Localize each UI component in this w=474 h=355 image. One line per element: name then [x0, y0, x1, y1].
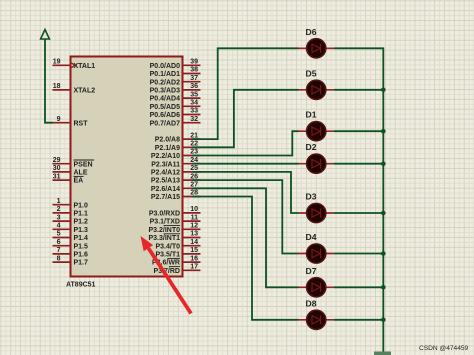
svg-text:P3.2/INT0: P3.2/INT0: [148, 227, 180, 234]
wire P2.3 to D2: [193, 163, 299, 165]
pin 23 P2.2/A10: [151, 149, 201, 160]
pin 29 PSEN: [53, 157, 95, 168]
svg-text:18: 18: [53, 83, 61, 90]
svg-text:XTAL2: XTAL2: [74, 88, 96, 95]
pin 14 P3.4/T0: [155, 239, 200, 250]
wire P2 pin to D4: [193, 180, 299, 253]
pin 30 ALE: [53, 165, 88, 176]
pin 16 P3.6/WR: [152, 255, 201, 266]
svg-text:7: 7: [57, 247, 61, 254]
junction node at bus D1: [381, 129, 386, 134]
svg-text:P2.0/A8: P2.0/A8: [155, 137, 180, 144]
watermark CSDN: [419, 345, 469, 352]
svg-text:3: 3: [57, 214, 61, 221]
pin 22 P2.1/A9: [155, 141, 201, 152]
junction node at bus D7: [381, 285, 386, 290]
svg-text:XTAL1: XTAL1: [74, 63, 96, 70]
pin 21 P2.0/A8: [155, 132, 201, 143]
svg-text:D2: D2: [306, 142, 317, 152]
svg-text:D1: D1: [306, 110, 317, 120]
svg-text:8: 8: [57, 255, 61, 262]
svg-text:5: 5: [57, 231, 61, 238]
svg-text:31: 31: [53, 173, 61, 180]
svg-text:17: 17: [190, 264, 198, 271]
svg-text:30: 30: [53, 165, 61, 172]
pin 7 P1.6: [53, 247, 89, 258]
junction node at bus D4: [381, 251, 386, 256]
svg-text:34: 34: [190, 100, 198, 107]
svg-text:P0.7/AD7: P0.7/AD7: [150, 120, 180, 127]
svg-text:P2.1/A9: P2.1/A9: [155, 145, 180, 152]
pin 37 P0.2/AD2: [150, 75, 201, 86]
annotation arrow (red pointer): [141, 236, 192, 314]
wire D3 cathode to bus: [334, 212, 383, 214]
LED D4: [299, 232, 334, 263]
svg-text:P2.3/A11: P2.3/A11: [151, 161, 180, 168]
svg-text:D7: D7: [306, 266, 317, 276]
svg-text:P1.6: P1.6: [74, 252, 89, 259]
svg-text:14: 14: [190, 239, 198, 246]
pin 27 P2.6/A14: [151, 182, 201, 193]
pin 13 P3.3/INT1: [148, 231, 200, 242]
pin 31 EA: [53, 173, 84, 184]
pin 2 P1.1: [53, 206, 89, 217]
svg-text:D4: D4: [306, 232, 317, 242]
pin 35 P0.4/AD4: [150, 91, 201, 102]
junction node at bus D5: [381, 88, 386, 93]
LED D1: [299, 110, 334, 141]
svg-text:PSEN: PSEN: [74, 161, 93, 168]
svg-text:P1.3: P1.3: [74, 227, 89, 234]
svg-text:P0.3/AD3: P0.3/AD3: [150, 88, 180, 95]
svg-text:D6: D6: [306, 27, 317, 37]
svg-text:39: 39: [190, 59, 198, 66]
svg-text:2: 2: [57, 206, 61, 213]
svg-text:P2.4/A12: P2.4/A12: [151, 170, 180, 177]
pin 15 P3.5/T1: [155, 247, 200, 258]
svg-text:CSDN @474459: CSDN @474459: [419, 345, 469, 352]
svg-text:29: 29: [53, 157, 61, 164]
svg-text:P3.3/INT1: P3.3/INT1: [148, 235, 180, 242]
wire P2 pin to D1: [193, 131, 299, 155]
LED D3: [299, 192, 334, 223]
svg-text:RST: RST: [74, 120, 89, 127]
svg-text:D5: D5: [306, 68, 317, 78]
wire D2 cathode to bus: [334, 163, 383, 165]
svg-text:P3.0/RXD: P3.0/RXD: [149, 211, 180, 218]
svg-text:P1.4: P1.4: [74, 235, 89, 242]
svg-text:AT89C51: AT89C51: [66, 282, 96, 289]
pin 3 P1.2: [53, 214, 89, 225]
svg-text:P3.1/TXD: P3.1/TXD: [150, 219, 180, 226]
pin 6 P1.5: [53, 239, 89, 250]
svg-text:P0.4/AD4: P0.4/AD4: [150, 96, 180, 103]
svg-text:P1.0: P1.0: [74, 202, 89, 209]
pin 19 XTAL1: [53, 59, 96, 70]
pin 24 P2.3/A11: [151, 157, 200, 168]
svg-text:P0.0/AD0: P0.0/AD0: [150, 63, 180, 70]
svg-text:P2.2/A10: P2.2/A10: [151, 153, 180, 160]
pin 36 P0.3/AD3: [150, 83, 201, 94]
pin 5 P1.4: [53, 231, 89, 242]
svg-text:P1.2: P1.2: [74, 219, 89, 226]
svg-text:12: 12: [190, 223, 198, 230]
pin 4 P1.3: [53, 223, 89, 234]
svg-text:9: 9: [57, 116, 61, 123]
pin 17 P3.7/RD: [154, 264, 201, 275]
wire P2 pin to D8: [193, 197, 299, 320]
svg-text:D8: D8: [306, 298, 317, 308]
svg-text:15: 15: [190, 247, 198, 254]
wire D1 cathode to bus: [334, 130, 383, 132]
power symbol VCC arrow: [41, 30, 50, 40]
pin 28 P2.7/A15: [151, 190, 201, 201]
svg-text:P1.1: P1.1: [74, 211, 89, 218]
svg-text:32: 32: [190, 116, 198, 123]
svg-text:P2.6/A14: P2.6/A14: [151, 186, 180, 193]
wire D4 cathode to bus: [334, 253, 383, 255]
pin 1 P1.0: [53, 198, 89, 209]
junction node at bus D2: [381, 161, 386, 166]
pin 10 P3.0/RXD: [149, 206, 201, 217]
svg-text:16: 16: [190, 255, 198, 262]
wire P2 pin to D7: [193, 188, 299, 287]
wire P2 pin to D3: [193, 172, 299, 213]
ground: [374, 352, 391, 355]
IC U1 AT89C51 microcontroller body: [71, 57, 183, 277]
svg-text:P1.5: P1.5: [74, 243, 89, 250]
svg-text:11: 11: [191, 214, 199, 221]
pin 32 P0.7/AD7: [150, 116, 201, 127]
svg-text:D3: D3: [306, 192, 317, 202]
svg-text:13: 13: [190, 231, 198, 238]
pin 12 P3.2/INT0: [148, 223, 200, 234]
pin 26 P2.5/A13: [151, 173, 201, 184]
svg-text:19: 19: [53, 59, 61, 66]
pin 18 XTAL2: [53, 83, 96, 94]
wire P2 pin to D6: [193, 48, 299, 139]
svg-text:P0.2/AD2: P0.2/AD2: [150, 79, 180, 86]
wire D8 cathode to bus: [334, 319, 383, 321]
svg-text:P3.5/T1: P3.5/T1: [155, 252, 180, 259]
wire D5 cathode to bus: [334, 89, 383, 91]
svg-text:38: 38: [190, 67, 198, 74]
pin 34 P0.5/AD5: [150, 100, 201, 111]
svg-text:P0.6/AD6: P0.6/AD6: [150, 112, 180, 119]
svg-text:P0.5/AD5: P0.5/AD5: [150, 104, 180, 111]
junction node at bus D3: [381, 211, 386, 216]
svg-text:36: 36: [190, 83, 198, 90]
svg-text:1: 1: [57, 198, 61, 205]
LED D5: [299, 68, 334, 99]
svg-text:37: 37: [190, 75, 198, 82]
svg-text:4: 4: [57, 223, 61, 230]
svg-text:P2.5/A13: P2.5/A13: [151, 178, 180, 185]
LED D6: [299, 27, 334, 58]
LED D7: [299, 266, 334, 297]
svg-text:ALE: ALE: [74, 170, 88, 177]
wire P2 pin to D5: [193, 90, 299, 148]
svg-text:P1.7: P1.7: [74, 260, 89, 267]
wire D7 cathode to bus: [334, 286, 383, 288]
wire bus vertical to ground: [334, 48, 383, 351]
pin 25 P2.4/A12: [151, 165, 201, 176]
pin 9 RST: [53, 116, 89, 127]
svg-text:35: 35: [190, 91, 198, 98]
svg-text:10: 10: [190, 206, 198, 213]
pin 33 P0.6/AD6: [150, 108, 201, 119]
pin 11 P3.1/TXD: [150, 214, 201, 225]
LED D8: [299, 298, 334, 329]
pin 8 P1.7: [53, 255, 89, 266]
svg-text:P2.7/A15: P2.7/A15: [151, 194, 180, 201]
pin 38 P0.1/AD1: [150, 67, 201, 78]
wire power to RST: [45, 39, 53, 123]
svg-text:P0.1/AD1: P0.1/AD1: [150, 71, 180, 78]
svg-text:P3.4/T0: P3.4/T0: [155, 243, 180, 250]
svg-text:33: 33: [190, 108, 198, 115]
LED D2: [299, 142, 334, 173]
svg-text:EA: EA: [74, 178, 84, 185]
junction node at bus D8: [381, 318, 386, 323]
pin 39 P0.0/AD0: [150, 59, 201, 70]
svg-text:6: 6: [57, 239, 61, 246]
